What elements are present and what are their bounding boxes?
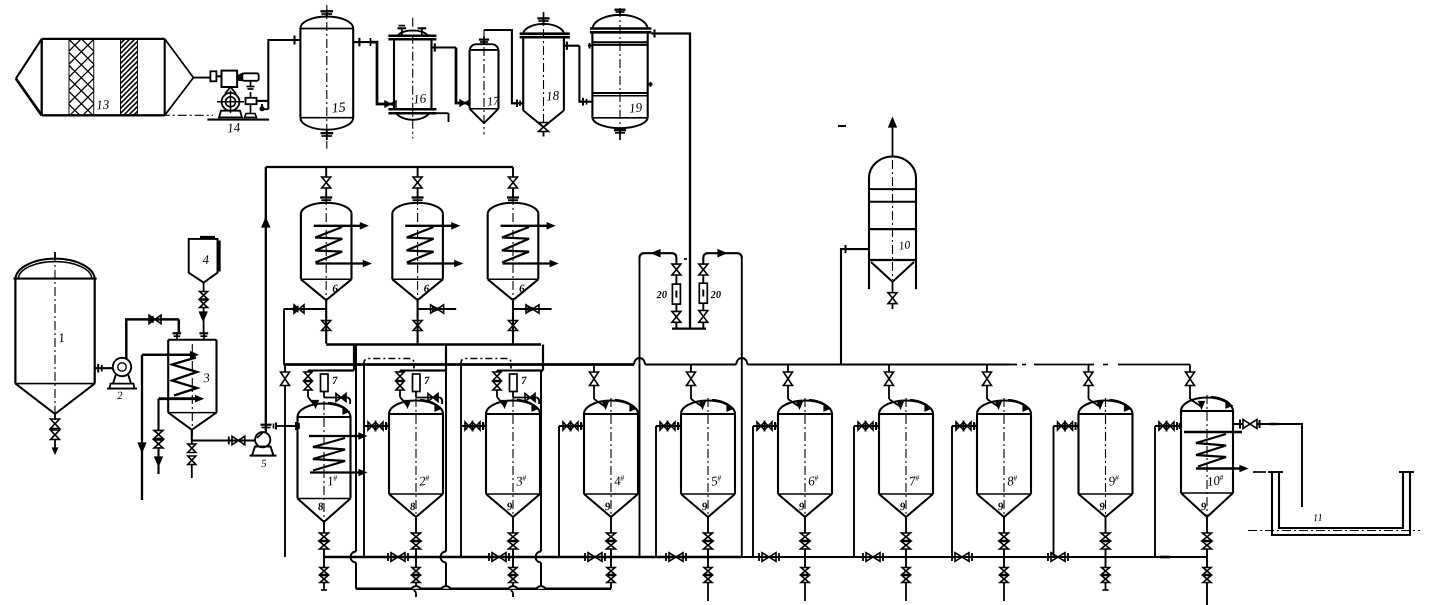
cascade riser to vessel 4# xyxy=(558,426,560,557)
rotameter 20 left branch xyxy=(675,262,677,264)
gas meter manifold with rotameters 20 xyxy=(640,253,677,262)
jumper line above vessel 2# xyxy=(364,359,414,369)
vessel 18 xyxy=(523,24,564,34)
vessel 4# bottom valves xyxy=(610,517,612,533)
coil drain line from tank 3 xyxy=(157,399,159,431)
coil in vessel 1# xyxy=(309,435,361,437)
transfer line valve xyxy=(955,553,962,562)
vessel 7# top feed xyxy=(888,365,890,373)
vessel 10# bottom valves xyxy=(1206,517,1208,533)
rotameter 20 right branch xyxy=(702,262,704,264)
vessel 6# bottom valves xyxy=(804,517,806,533)
discharge trough 11 xyxy=(1272,472,1410,535)
svg-text:11: 11 xyxy=(1313,513,1323,524)
vessel 10# inlet valve xyxy=(1155,425,1180,427)
coil in dissolver 6 (c) xyxy=(501,225,550,227)
cascade riser to vessel 5# xyxy=(655,426,657,557)
transfer line valve xyxy=(866,553,873,562)
diffuser vessel 10# xyxy=(1181,398,1233,412)
pipe pump14 to vessel 15 xyxy=(257,100,269,102)
vessel 7# inlet valve xyxy=(854,425,879,427)
cascade riser to vessel 9# xyxy=(1053,426,1055,557)
vessel 8# top feed xyxy=(986,365,988,373)
svg-text:17: 17 xyxy=(487,93,501,108)
diffuser vessel 2# xyxy=(389,401,443,415)
vapor pipe 19 to gas meters xyxy=(651,34,690,329)
pump 2 xyxy=(113,358,131,376)
diffuser vessel 1# xyxy=(298,404,351,418)
diffuser vessel 8# xyxy=(977,401,1031,415)
pipe pump2 to tank3 with valve xyxy=(126,319,179,358)
vessel 9# bottom valves xyxy=(1105,517,1107,533)
diffuser vessel 7# xyxy=(879,401,933,415)
dissolver 6 (a) bottom piping xyxy=(325,300,327,343)
dissolver 6 (c) top valve xyxy=(512,167,514,177)
cascade riser to vessel 6# xyxy=(752,426,754,557)
diffuser vessel 5# xyxy=(681,401,735,415)
pipe 15 to 16 xyxy=(371,42,395,104)
vessel 6# inlet valve xyxy=(753,425,778,427)
dissolver 6 (c) bottom piping xyxy=(512,300,514,343)
svg-text:18: 18 xyxy=(545,87,560,103)
collecting header under dissolvers xyxy=(326,343,541,346)
pipe 17 to 18 xyxy=(484,30,523,103)
pump 5 xyxy=(255,432,270,447)
diffuser vessel 4# xyxy=(584,401,638,415)
bottom drain header xyxy=(356,588,611,591)
pipe tank1 to pump2 xyxy=(95,367,113,369)
vessel 2# inlet valve xyxy=(364,425,389,427)
transfer line valve xyxy=(1051,553,1058,562)
cascade riser to vessel 2# xyxy=(363,363,365,557)
gas manifold left leg down xyxy=(639,256,641,557)
vessel 4# inlet valve xyxy=(559,425,584,427)
dissolver 6 (b) top valve xyxy=(417,167,419,177)
vessel 3# inlet valve xyxy=(461,425,486,427)
vessel 3# top feed xyxy=(497,370,517,372)
vessel 17 xyxy=(470,44,499,50)
feed tank 1 xyxy=(15,259,94,279)
vessel 15 xyxy=(300,16,353,28)
vessel 16 xyxy=(397,30,429,35)
cascade riser to vessel 3# xyxy=(460,363,462,557)
diffuser vessel 3# xyxy=(486,401,540,415)
hopper 4 xyxy=(189,239,218,283)
svg-text:13: 13 xyxy=(96,97,110,113)
mixing tank 3 xyxy=(168,339,216,341)
drain drop from dissolver 6a to header xyxy=(283,309,285,365)
main header xyxy=(284,363,635,366)
meter manifold bottom xyxy=(672,327,706,329)
vessel 2# bottom valves xyxy=(415,517,417,533)
coil in vessel 10# xyxy=(1184,431,1242,434)
svg-text:10: 10 xyxy=(898,239,911,253)
vessel 1# bottom valves xyxy=(323,522,325,533)
diffuser vessel 6# xyxy=(778,401,832,415)
vessel 9# top feed xyxy=(1088,365,1090,373)
transfer line valve xyxy=(762,553,769,562)
dissolver 6 (a) xyxy=(320,196,332,198)
svg-text:16: 16 xyxy=(412,90,427,106)
vessel 19 xyxy=(592,15,647,29)
vessel 6# top feed xyxy=(787,365,789,373)
coil feed line into tank 3 xyxy=(141,355,143,500)
transfer line valve xyxy=(391,553,398,562)
svg-text:19: 19 xyxy=(628,99,643,115)
pipe 13 to pump 14 xyxy=(193,77,210,79)
vessel 7# bottom valves xyxy=(905,517,907,533)
storage bin 10 xyxy=(869,157,916,179)
transfer line valve xyxy=(492,553,499,562)
dissolver 6 (b) xyxy=(412,196,424,198)
vessel 10# top feed xyxy=(1189,365,1191,373)
svg-text:20: 20 xyxy=(709,290,722,302)
feed pipe to bin 10 xyxy=(841,249,869,364)
dissolver 6 (b) bottom piping xyxy=(417,300,419,343)
svg-text:20: 20 xyxy=(655,290,668,302)
vessel 1# inlet line from header xyxy=(284,365,286,373)
coil in dissolver 6 (b) xyxy=(405,225,454,227)
vessel 5# inlet valve xyxy=(656,425,681,427)
vessel 5# top feed xyxy=(690,365,692,373)
cascade riser to vessel 8# xyxy=(951,426,953,557)
jumper line above vessel 3# xyxy=(461,359,511,369)
vessel 10# outlet to trough xyxy=(1232,423,1243,425)
pipe 18 to 19 xyxy=(579,46,592,102)
cascade riser to vessel 10# xyxy=(1154,426,1156,557)
svg-text:4: 4 xyxy=(202,252,210,267)
downcomer lines xyxy=(355,345,357,552)
filter vessel 13 xyxy=(42,38,165,40)
vessel 3# bottom valves xyxy=(512,517,514,533)
svg-text:15: 15 xyxy=(331,100,346,116)
coil in tank 3 xyxy=(142,353,193,356)
tank 3 bottom outlet to pump 5 xyxy=(191,430,193,441)
vessel 4# top feed xyxy=(593,365,595,373)
cascade riser to vessel 7# xyxy=(853,426,855,557)
pump 5 discharge riser to header xyxy=(265,167,267,432)
gas manifold right leg down xyxy=(741,256,743,557)
vessel 5# bottom valves xyxy=(707,517,709,533)
vessel 8# inlet valve xyxy=(952,425,977,427)
pump 14 xyxy=(210,71,216,81)
hopper 4 discharge valve xyxy=(203,283,205,292)
transfer line valve xyxy=(669,553,676,562)
vessel 2# top feed xyxy=(400,370,420,372)
pipe 16 to 17 xyxy=(456,48,470,104)
vessel 9# inlet valve xyxy=(1054,425,1079,427)
bottom transfer line xyxy=(324,556,741,559)
diffuser vessel 9# xyxy=(1079,401,1133,415)
transfer line valve xyxy=(588,553,595,562)
vessel 1# top feed xyxy=(308,370,328,372)
dissolver 6 (a) top valve xyxy=(325,167,327,177)
top distribution header xyxy=(266,166,513,168)
svg-text:14: 14 xyxy=(227,120,242,136)
coil in dissolver 6 (a) xyxy=(314,225,363,227)
vessel 8# bottom valves xyxy=(1003,517,1005,533)
dissolver 6 (c) xyxy=(507,196,519,198)
